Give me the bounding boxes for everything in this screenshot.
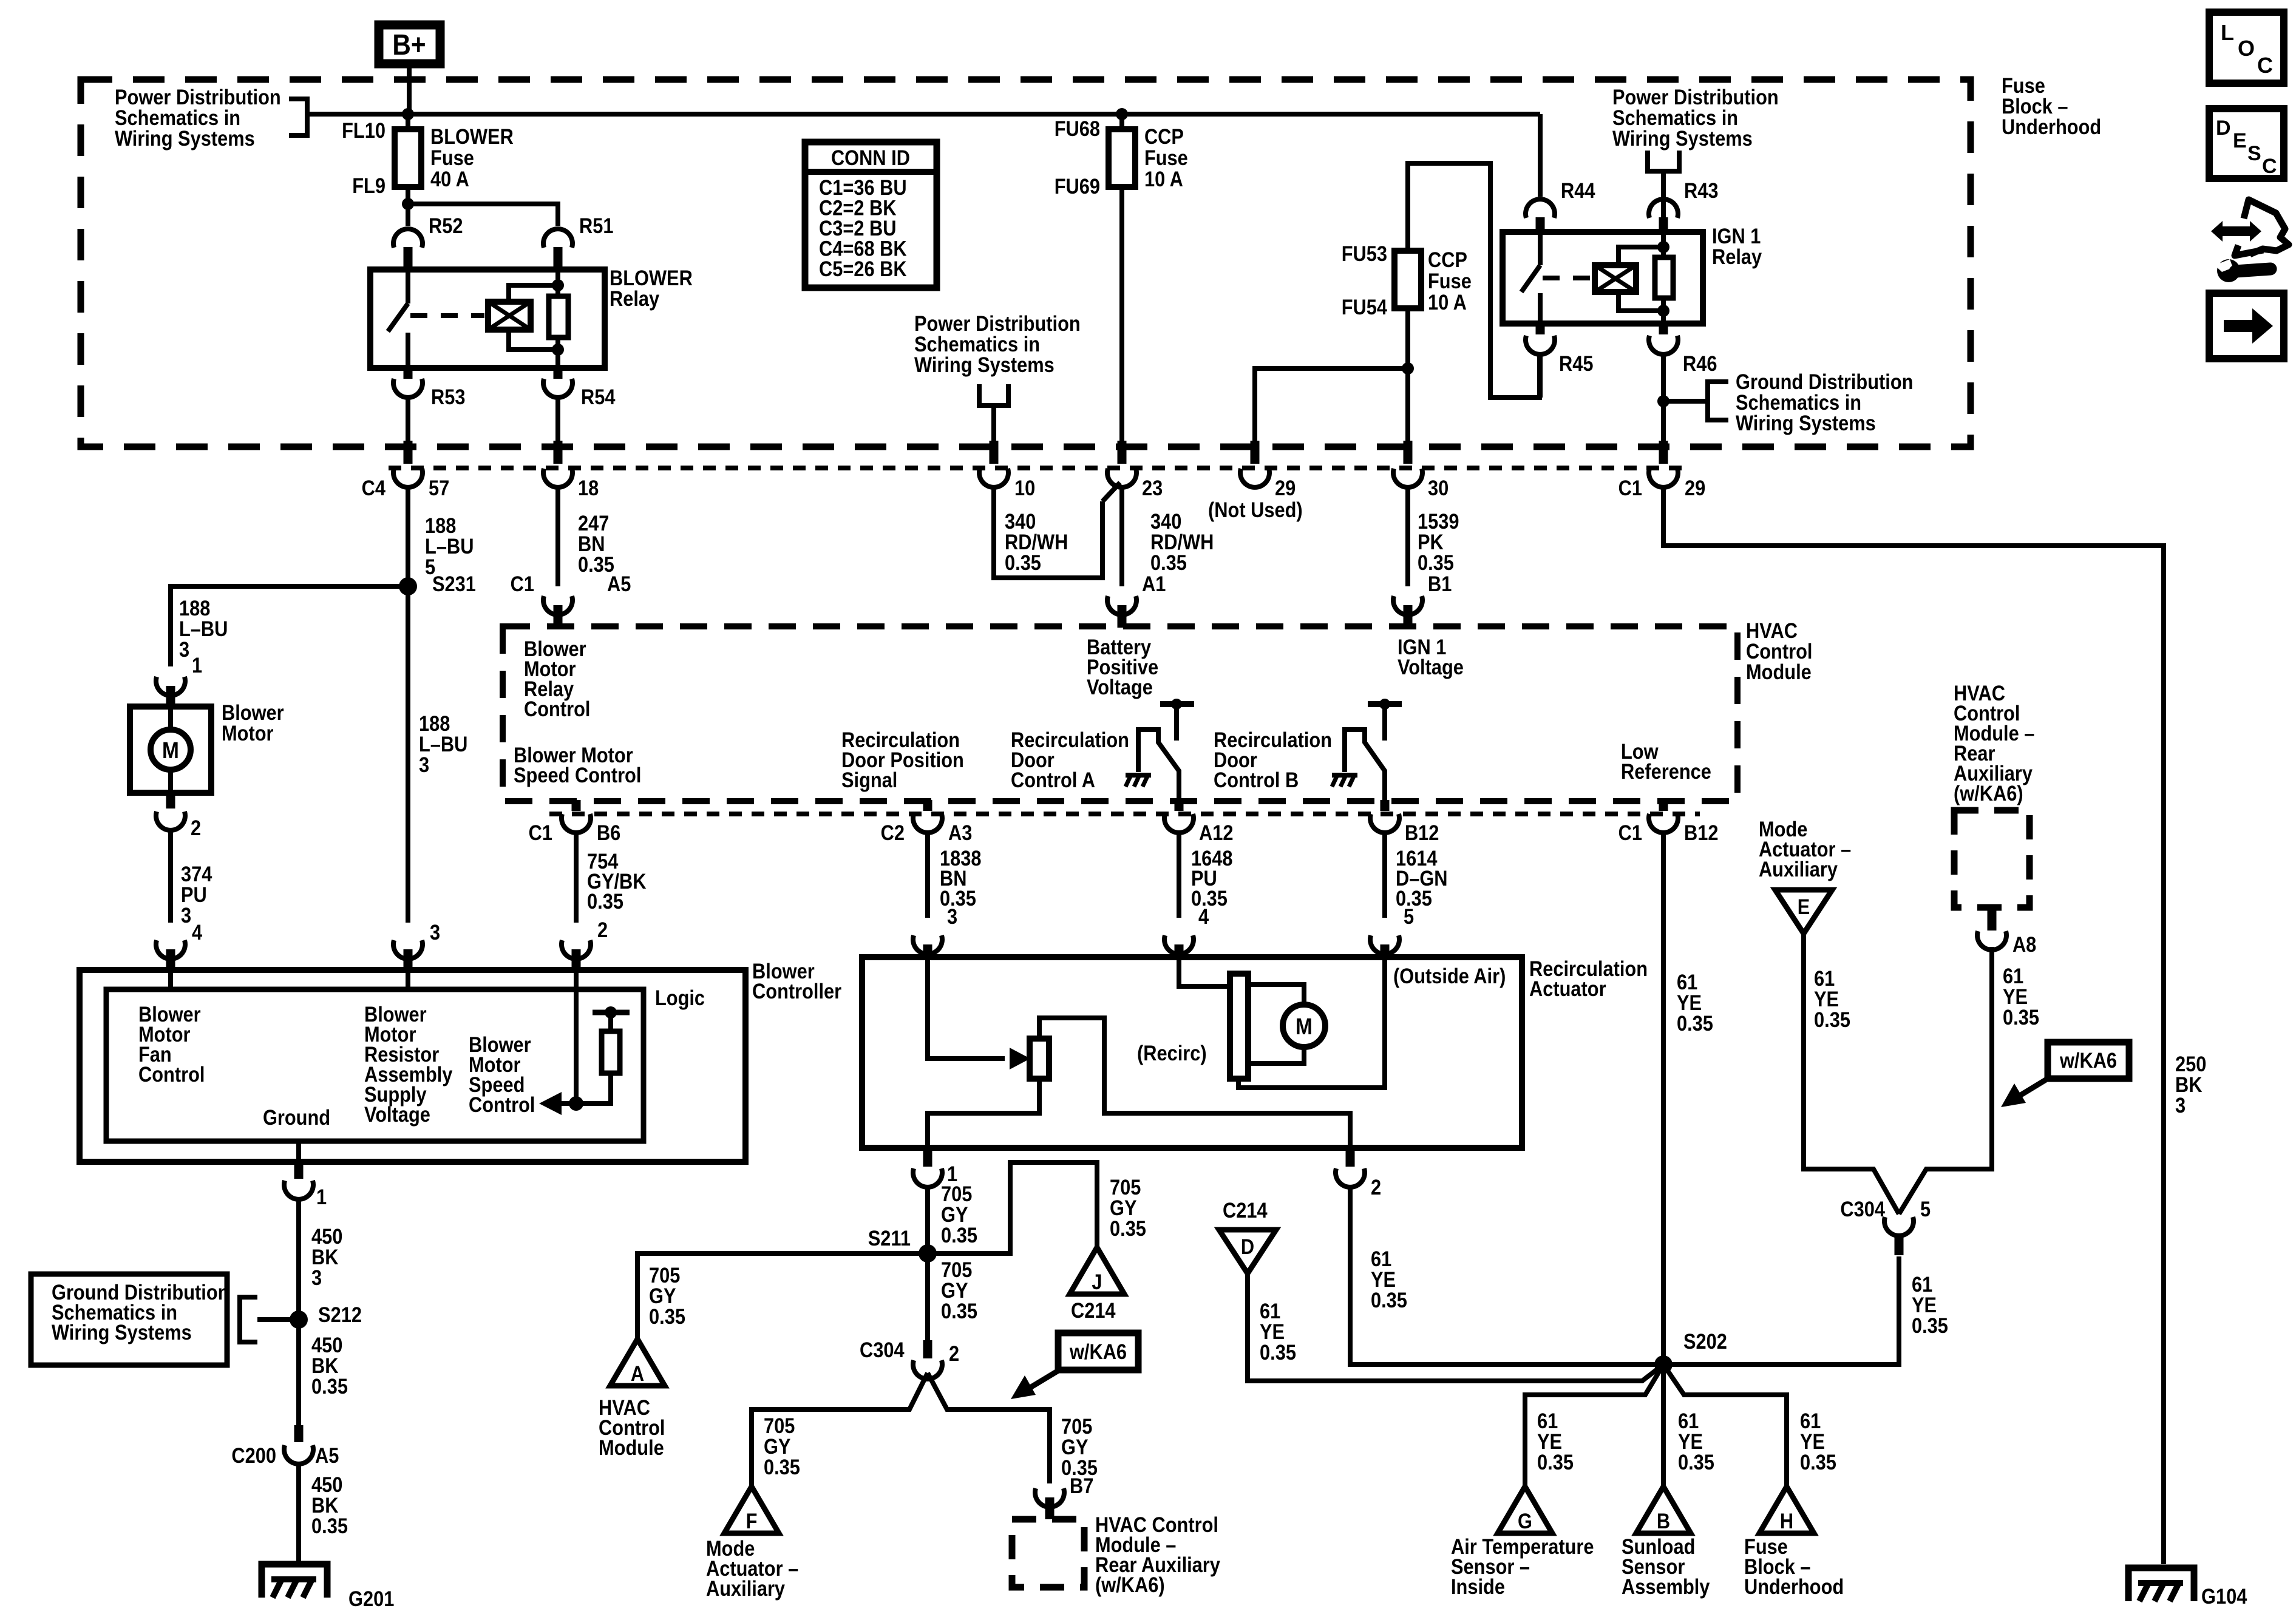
svg-text:Wiring Systems: Wiring Systems [115,126,255,150]
svg-text:O: O [2238,36,2255,61]
connector pin 4 into recirculation actuator [1164,935,1194,954]
connector pin 18 [554,441,563,464]
svg-text:Wiring Systems: Wiring Systems [52,1320,192,1344]
svg-text:4: 4 [192,920,203,944]
bracket to ground distribution box [257,1317,299,1322]
connector R45 [1536,324,1545,334]
connector C200 A5 [294,1425,304,1442]
svg-text:0.35: 0.35 [1260,1340,1296,1364]
svg-text:A12: A12 [1199,821,1233,844]
svg-text:Actuator: Actuator [1529,977,1606,1000]
svg-text:R51: R51 [579,214,613,237]
svg-text:H: H [1780,1509,1793,1533]
svg-text:A5: A5 [315,1443,339,1467]
svg-text:B+: B+ [392,28,426,61]
svg-text:C5=26 BK: C5=26 BK [819,257,907,280]
svg-text:C214: C214 [1071,1298,1116,1322]
svg-text:A8: A8 [2012,932,2036,956]
svg-text:D: D [2216,117,2231,140]
svg-text:M: M [1296,1014,1313,1039]
svg-text:29: 29 [1685,476,1705,500]
connector C1 A5 into HVAC module [543,596,572,615]
svg-text:CONN ID: CONN ID [831,146,910,169]
connector row dotted line under fuse block [389,466,1688,470]
svg-text:D: D [1241,1235,1254,1258]
IGN 1 relay box [1503,232,1703,324]
wire S211 to J triangle [928,1162,1097,1253]
wire 1648 PU to actuator [1177,832,1181,918]
svg-text:0.35: 0.35 [764,1455,800,1479]
svg-text:S231: S231 [432,572,476,595]
wire 61 YE from low reference to S202 [1661,832,1666,1364]
connector pin 3 into recirculation actuator [913,935,942,954]
svg-text:FL10: FL10 [342,118,385,142]
triangle A connector [610,1339,665,1386]
blower relay switch [406,269,410,303]
w/KA6 callout box (right) [2048,1042,2129,1079]
blower motor circle M [168,707,173,730]
svg-text:R52: R52 [429,214,463,237]
splice S212 [290,1310,308,1329]
svg-text:M: M [162,737,179,763]
wire: B+ down to bus [407,64,412,114]
svg-text:2: 2 [597,918,608,941]
actuator slider bar [1230,974,1248,1079]
svg-text:A3: A3 [948,821,972,844]
wire 1614 D-GN to actuator [1382,832,1387,918]
HVAC control module rear auxiliary dashed box (right) [1954,810,2029,907]
ground G104 [2128,1568,2194,1601]
svg-text:Control: Control [524,697,590,720]
connector C1 B6 [572,800,581,811]
connector pin 30 [1405,368,1410,442]
connector pin 2 below actuator [1346,1148,1355,1167]
svg-text:CCP: CCP [1428,248,1467,271]
actuator wiper arrow from pin 3 [928,959,1005,1059]
svg-text:10: 10 [1014,476,1035,500]
wire 340 RD/WH pin23 to A1 [1119,487,1124,586]
svg-text:Logic: Logic [655,986,705,1009]
wire: main power bus [307,112,1540,117]
connector C304 pin 5 [1895,1237,1904,1255]
connector pin 23 [1118,441,1127,464]
bracket to power distribution top left [289,99,307,135]
svg-text:0.35: 0.35 [1191,886,1228,910]
wire 1539 PK to B1 [1405,487,1410,586]
connector R53 [404,368,413,379]
svg-text:(Outside Air): (Outside Air) [1393,964,1506,988]
icon box DESC [2209,109,2284,178]
svg-text:30: 30 [1428,476,1449,500]
svg-text:0.35: 0.35 [649,1304,685,1328]
connector C1 29 below fuse block [1659,441,1668,464]
svg-text:A: A [631,1361,644,1385]
svg-text:S212: S212 [318,1303,362,1326]
svg-text:FU53: FU53 [1342,242,1387,265]
svg-text:w/KA6: w/KA6 [2059,1048,2117,1072]
svg-text:FL9: FL9 [352,174,385,197]
logic resistor with arrow [593,1010,630,1015]
blower relay contact-side line and resistor [555,269,560,368]
svg-text:B6: B6 [597,821,620,844]
svg-text:Voltage: Voltage [1087,675,1153,699]
icon box right arrow [2209,293,2284,359]
wire 188 L-BU from C4-57 to S231 [406,487,410,586]
svg-text:2: 2 [1371,1175,1381,1199]
wire 374 PU to controller pin 4 [168,830,173,923]
svg-text:J: J [1092,1270,1102,1293]
wire: S231 branch to blower motor [171,586,408,666]
svg-text:A1: A1 [1142,572,1166,595]
svg-text:10 A: 10 A [1428,290,1467,314]
svg-text:0.35: 0.35 [940,886,976,910]
svg-text:Voltage: Voltage [364,1102,430,1126]
slider bottom to pin5 wire [1238,959,1385,1088]
svg-text:Fuse: Fuse [430,146,474,169]
svg-text:C1: C1 [1618,821,1642,844]
svg-text:G201: G201 [348,1587,394,1610]
svg-text:0.35: 0.35 [1150,551,1187,574]
triangle G connector [1498,1486,1552,1533]
svg-text:0.35: 0.35 [1418,551,1454,574]
svg-text:CCP: CCP [1144,124,1184,148]
svg-text:E: E [1798,895,1810,918]
svg-text:3: 3 [311,1266,322,1289]
triangle E connector (mode actuator auxiliary) [1775,890,1832,934]
triangle J connector [1070,1247,1124,1294]
svg-text:C2: C2 [881,821,905,844]
wire from bracket to pin 10 [991,405,996,443]
svg-text:Control: Control [469,1093,535,1116]
bracket below top right power distribution label [1648,151,1679,171]
wire 705 GY pin1 to S211 [925,1187,930,1341]
w/KA6 callout box (left) [1058,1333,1138,1370]
ign1 relay switch [1538,232,1543,265]
connector A1 into HVAC module [1107,596,1136,615]
svg-text:3: 3 [179,637,189,661]
svg-text:Speed Control: Speed Control [514,763,641,787]
svg-text:Controller: Controller [752,979,841,1003]
fuse FU68/FU69 CCP Fuse 10 A [1119,114,1124,132]
svg-text:Voltage: Voltage [1398,655,1464,679]
connector B12 (module) [1381,800,1390,811]
fuse block underhood dashed boundary box [81,80,1971,447]
svg-text:0.35: 0.35 [1800,1450,1836,1474]
triangle H connector [1759,1486,1814,1533]
ign1 relay actuation dashed line [1543,276,1591,280]
CONN ID table box [805,142,937,288]
svg-text:0.35: 0.35 [1005,551,1041,574]
triangle B connector [1636,1486,1691,1533]
connector R44 [1526,199,1555,218]
svg-text:Control B: Control B [1214,768,1299,792]
svg-text:R43: R43 [1684,178,1718,202]
controller ground pin wire [296,1141,301,1162]
connector R54 [554,368,563,379]
connector pin 2 of blower controller [562,940,591,959]
svg-text:B7: B7 [1070,1474,1093,1497]
svg-text:0.35: 0.35 [1814,1008,1850,1031]
wire: S231 down to controller pin 3 [406,586,410,923]
blower controller logic box [106,989,644,1141]
svg-text:w/KA6: w/KA6 [1069,1340,1127,1363]
svg-text:0.35: 0.35 [1678,1450,1714,1474]
svg-text:57: 57 [429,476,449,500]
splice S211 [919,1244,937,1263]
w/KA6 arrow (right) [2017,1079,2048,1097]
svg-text:29: 29 [1275,476,1296,500]
svg-text:Control: Control [138,1062,205,1086]
svg-text:B: B [1657,1509,1670,1533]
svg-text:40 A: 40 A [430,167,469,191]
svg-text:G104: G104 [2201,1584,2247,1608]
blower relay coil [488,302,531,330]
connector pin 2 below blower motor [166,793,175,808]
pin 2 wire into logic [574,971,579,1103]
svg-text:C: C [2257,53,2273,78]
wire 1838 BN to actuator pin A3 [925,832,930,918]
svg-text:Ground: Ground [263,1105,330,1129]
svg-text:18: 18 [578,476,599,500]
svg-text:23: 23 [1142,476,1163,500]
svg-text:Relay: Relay [1712,245,1762,268]
bracket: ground distribution schematics [1663,399,1708,404]
svg-text:F: F [746,1509,758,1533]
svg-text:S: S [2247,142,2261,165]
svg-text:5: 5 [1920,1197,1931,1221]
svg-text:C304: C304 [1840,1197,1885,1221]
ground G201 [262,1564,327,1598]
wire S211 to HVAC control module A triangle [637,1253,928,1339]
HVAC control module dashed box [503,626,1737,801]
pot bottom to connector 1 [928,1079,1039,1150]
svg-text:3: 3 [181,903,191,927]
module internal switch A (recirc door control A) [1160,701,1194,707]
svg-text:Wiring Systems: Wiring Systems [1736,411,1876,435]
wire: down to R52 [406,204,410,226]
svg-text:10 A: 10 A [1144,167,1183,191]
w/KA6 arrow (left) [1027,1370,1059,1389]
connector C2 A3 [923,800,932,811]
svg-text:Underhood: Underhood [2002,115,2101,138]
ign1 relay coil [1595,265,1636,292]
connector C1 B12 (low reference) [1659,800,1668,811]
svg-text:0.35: 0.35 [1912,1314,1948,1337]
svg-text:(w/KA6): (w/KA6) [1954,781,2023,805]
svg-text:C304: C304 [860,1338,905,1361]
connector R43 [1649,199,1678,218]
svg-text:C4: C4 [362,476,386,500]
svg-text:0.35: 0.35 [1537,1450,1574,1474]
svg-text:B12: B12 [1405,821,1439,844]
connector B7 [1035,1488,1064,1507]
recirculation actuator box [862,957,1522,1148]
svg-text:C214: C214 [1223,1198,1268,1222]
junction dot to ground distribution [1657,395,1669,407]
svg-text:Module: Module [599,1436,664,1459]
svg-text:0.35: 0.35 [311,1374,348,1398]
svg-text:Signal: Signal [841,768,897,792]
connector A12 [1175,800,1184,811]
svg-text:Control A: Control A [1011,768,1095,792]
wire 250 BK from C1-29 to G104 [1663,487,2164,1564]
actuator motor drive from pin A12 [1179,959,1231,986]
svg-text:0.35: 0.35 [941,1223,977,1247]
wire S202 to G triangle [1525,1364,1663,1486]
splice S202 [1654,1355,1673,1374]
junction dot below FU54 [1402,362,1414,375]
module internal switch B (recirc door control B) [1368,701,1402,707]
svg-text:1: 1 [192,653,202,677]
svg-text:S202: S202 [1683,1329,1727,1353]
svg-text:Wiring Systems: Wiring Systems [914,353,1055,376]
fuse FU53/FU54 CCP Fuse 10 A [1405,311,1410,368]
wire 450 BK to G201 [296,1463,301,1564]
svg-text:R44: R44 [1561,178,1595,202]
connector R46 [1659,324,1668,334]
svg-text:3: 3 [947,904,957,928]
blower relay actuation dashed line [410,313,484,318]
wire: bus down to R44 [1538,114,1543,197]
svg-text:Underhood: Underhood [1744,1575,1844,1598]
wire S202 to B triangle [1661,1364,1666,1486]
svg-text:1: 1 [316,1185,327,1209]
svg-text:E: E [2233,129,2247,152]
connector A8 [1977,931,2006,950]
svg-text:Reference: Reference [1621,759,1711,783]
svg-text:3: 3 [419,753,429,776]
svg-text:0.35: 0.35 [1677,1011,1713,1035]
svg-text:C1: C1 [529,821,552,844]
svg-text:S211: S211 [868,1226,911,1250]
svg-text:4: 4 [1198,904,1209,928]
junction dot at B+ / bus [402,108,414,120]
svg-text:L: L [2221,20,2234,45]
connector pin 29 not used [1251,441,1260,464]
connector R52 [393,229,423,248]
blower controller outer box [80,970,746,1162]
svg-text:3: 3 [2175,1093,2186,1117]
bracket below middle power distribution label [979,384,1008,405]
wire 61 YE pin2 to S202 [1350,1187,1663,1364]
svg-text:5: 5 [1404,904,1414,928]
pot wiper to connector 1 path [1039,1018,1350,1150]
svg-text:Wiring Systems: Wiring Systems [1612,126,1753,150]
svg-text:R54: R54 [581,385,616,408]
B+ battery feed box [379,25,440,64]
Y split above C304-5 [1804,935,1899,1214]
svg-text:C: C [2262,155,2277,178]
svg-text:R46: R46 [1683,351,1717,375]
svg-text:FU68: FU68 [1055,117,1100,140]
connector C304 pin 2 [923,1340,932,1358]
ground distribution schematics box [31,1274,227,1365]
junction dot below blower fuse [402,198,414,210]
svg-text:B12: B12 [1684,821,1718,844]
blower motor box [130,707,211,793]
svg-text:0.35: 0.35 [587,889,623,913]
junction dot at bus / FU68 [1116,108,1128,120]
svg-text:Auxiliary: Auxiliary [1759,857,1838,881]
wire: branch to R51 [408,204,558,226]
svg-text:R45: R45 [1559,351,1593,375]
svg-text:A5: A5 [607,572,631,595]
BLOWER relay box [370,269,605,368]
wire 61 YE from D to S202 [1248,1273,1663,1381]
svg-text:C1: C1 [511,572,534,595]
svg-text:Auxiliary: Auxiliary [706,1576,786,1600]
svg-text:3: 3 [430,920,440,944]
splice S231 [399,577,417,595]
svg-text:0.35: 0.35 [2003,1005,2039,1029]
triangle D connector [1219,1230,1276,1273]
svg-text:FU54: FU54 [1342,295,1388,319]
svg-text:0.35: 0.35 [941,1299,977,1323]
triangle F connector [724,1486,779,1533]
svg-text:Motor: Motor [222,721,274,745]
svg-text:R53: R53 [431,385,465,408]
svg-text:Fuse: Fuse [1428,269,1472,293]
icon box LOC [2209,12,2284,83]
connector pin 10 [990,441,999,464]
svg-text:(w/KA6): (w/KA6) [1095,1573,1165,1596]
svg-text:Module: Module [1746,660,1812,683]
wire 340 RD/WH loop pin10 to pin23 [994,487,1102,578]
wire pin29 elbow to FU53 junction [1255,368,1408,441]
svg-text:FU69: FU69 [1055,174,1100,198]
svg-text:Inside: Inside [1451,1575,1505,1598]
connector C4 pin 57 [404,441,413,464]
svg-text:2: 2 [949,1341,959,1365]
svg-text:0.35: 0.35 [1110,1216,1146,1240]
svg-text:(Recirc): (Recirc) [1137,1041,1207,1065]
svg-text:C200: C200 [231,1443,276,1467]
wire S202 to C304 pin 5 [1663,1256,1899,1364]
svg-text:0.35: 0.35 [1371,1288,1407,1312]
connector pin 5 into recirculation actuator [1370,935,1399,954]
wire 754 GY/BK to controller pin 2 [574,832,579,923]
svg-text:G: G [1518,1509,1532,1533]
Y split below C304-2 [752,1373,928,1486]
svg-text:Fuse: Fuse [1144,146,1188,169]
svg-text:Relay: Relay [610,286,660,310]
svg-text:(Not Used): (Not Used) [1208,498,1303,521]
svg-text:0.35: 0.35 [311,1514,348,1537]
connector B1 into HVAC module [1393,596,1422,615]
actuator position potentiometer [1030,1039,1049,1079]
module bottom connector dotted line [549,812,1700,816]
actuator motor M [1248,985,1304,1005]
svg-text:2: 2 [191,816,201,839]
ign1 relay contact line and resistor [1661,232,1666,324]
svg-text:C1: C1 [1618,476,1642,500]
svg-text:B1: B1 [1428,572,1452,595]
svg-text:Assembly: Assembly [1622,1575,1710,1598]
fuse FL10/FL9 BLOWER Fuse 40 A [406,114,410,132]
HVAC control module rear auxiliary dashed box (bottom) [1012,1519,1084,1587]
wire S202 to H triangle [1663,1364,1787,1486]
controller pin stubs into logic box [168,971,173,991]
connector pin 1 below actuator [923,1148,932,1167]
svg-text:BLOWER: BLOWER [430,124,514,148]
connector R51 [543,229,572,248]
wire 247 BN to C1 A5 [555,487,560,586]
wire 450 BK to S212 [296,1199,301,1426]
icon: diagnostic tool with arrows [2211,221,2261,242]
